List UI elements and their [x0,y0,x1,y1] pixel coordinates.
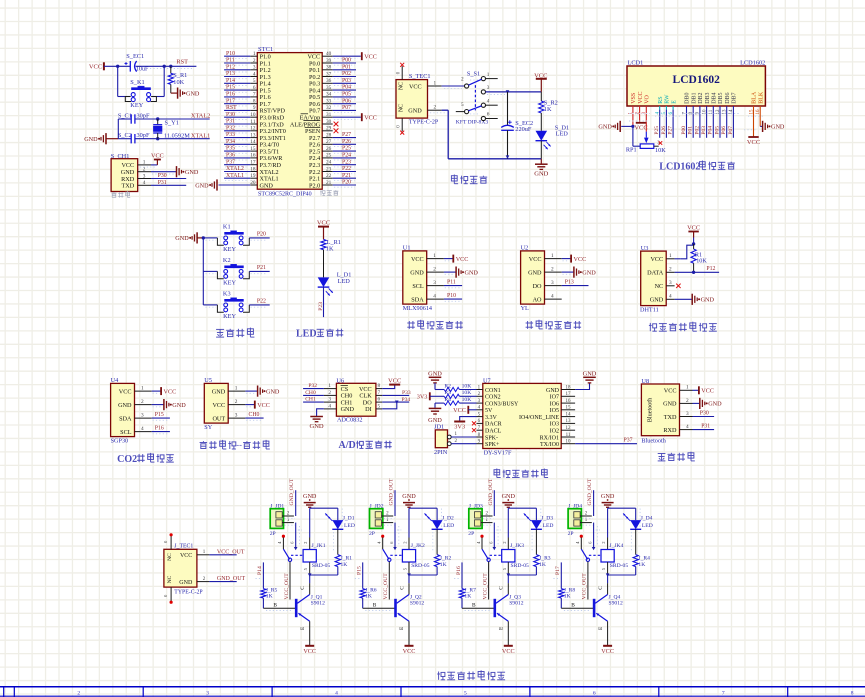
svg-text:10: 10 [566,440,572,445]
transistor J_Q3 S9012 [462,607,494,609]
svg-text:DB6: DB6 [725,92,731,103]
svg-text:5: 5 [253,78,256,84]
svg-text:S9012: S9012 [609,601,624,607]
svg-text:VCC: VCC [119,388,132,395]
svg-text:VCC_OUT: VCC_OUT [482,573,488,600]
resistor R4 10K [435,402,444,404]
no-connect at MCU pin 30 [334,122,339,127]
svg-text:P32: P32 [308,383,317,389]
svg-text:P36: P36 [226,153,235,159]
MCU pin 33 P0.6 [322,103,333,105]
svg-text:KEY: KEY [223,246,236,253]
svg-text:CON3/BUSY: CON3/BUSY [485,401,519,407]
LCD pin2 VCC port [639,106,641,123]
svg-text:STC89C52RC_DIP40: STC89C52RC_DIP40 [258,191,312,197]
svg-text:22: 22 [326,173,332,179]
svg-text:3V3: 3V3 [417,394,428,401]
svg-text:SDA: SDA [119,415,132,422]
MCU pin 23 P2.2 [322,171,333,173]
svg-text:VCC: VCC [664,388,677,395]
svg-text:1: 1 [433,253,436,259]
svg-text:P11: P11 [447,280,456,286]
svg-text:KEY: KEY [130,102,143,109]
svg-text:GND: GND [650,297,664,304]
LCD pin16 BLK to ground [759,106,761,126]
svg-text:5: 5 [461,102,464,108]
svg-text:10K: 10K [462,390,472,396]
svg-text:IO2: IO2 [550,429,559,435]
svg-text:S_K1: S_K1 [130,79,144,86]
svg-text:5V: 5V [485,408,493,414]
svg-text:15: 15 [566,406,572,411]
svg-text:DHT11: DHT11 [640,307,659,314]
VCC port cell 4 [603,645,612,647]
MCU pin 28 P2.7 [322,137,333,139]
svg-text:4: 4 [551,294,554,300]
svg-text:3: 3 [143,173,146,179]
svg-text:P15: P15 [226,85,235,91]
svg-text:VCC: VCC [403,648,416,655]
svg-text:VCC: VCC [388,378,401,385]
svg-text:VCC: VCC [747,139,760,146]
svg-text:VCC: VCC [638,91,644,103]
svg-text:KEY: KEY [223,280,236,287]
svg-text:P05: P05 [342,92,351,98]
svg-text:RW: RW [665,94,671,104]
svg-text:P07: P07 [728,126,734,135]
svg-text:12: 12 [250,126,256,132]
net P23 wire [323,287,325,317]
svg-text:J_D1: J_D1 [343,516,355,522]
MCU pin 18 XTAL2 [250,171,257,173]
MCU pin 1 P1.0 [250,55,257,57]
svg-text:GND: GND [546,388,560,394]
svg-text:VCC_OUT: VCC_OUT [582,573,588,600]
switch arms [468,79,481,85]
svg-text:3: 3 [669,280,672,286]
wire switch pin3 to rail [486,91,542,93]
svg-text:BLK: BLK [758,91,764,104]
svg-text:35: 35 [326,85,332,91]
svg-text:VCC: VCC [502,648,515,655]
net P34 wire [382,401,409,403]
svg-text:4: 4 [335,691,338,697]
svg-text:VCC: VCC [303,648,316,655]
resistor S_R1 10K [169,65,172,68]
VCC at MCU pin 40 [361,52,363,60]
svg-text:33: 33 [326,99,332,105]
svg-text:10uF: 10uF [136,67,149,73]
S_TEC1 pin2 wire [428,109,442,111]
net P32 wire [303,388,324,390]
svg-text:E: E [671,100,677,104]
svg-text:P21: P21 [257,265,266,271]
VCC port cell 2 [405,645,414,647]
svg-text:B: B [273,603,277,609]
svg-text:DACL: DACL [485,429,502,435]
svg-text:3: 3 [433,280,436,286]
svg-text:VCC: VCC [601,648,614,655]
svg-text:VCC: VCC [456,256,469,263]
svg-text:LED: LED [296,329,317,340]
svg-text:15: 15 [250,146,256,152]
svg-text:SPK+: SPK+ [485,442,500,448]
svg-text:3: 3 [686,411,689,417]
svg-text:DATA: DATA [647,270,664,277]
svg-text:TYPE-C-2P: TYPE-C-2P [174,590,202,596]
svg-text:14: 14 [566,412,572,417]
MCU pin 39 P0.0 [322,62,333,64]
MCU pin 29 PSEN [322,130,333,132]
resistor S_R2 1K [540,92,542,101]
svg-text:12: 12 [566,426,572,431]
svg-text:K3: K3 [223,291,231,298]
svg-text:NC: NC [167,575,173,583]
svg-text:DB1: DB1 [691,92,697,103]
svg-text:IO7: IO7 [550,395,559,401]
MCU pin 5 P1.4 [250,82,257,84]
net P33 wire [382,394,409,396]
svg-text:J_R7: J_R7 [464,588,476,594]
svg-text:P32: P32 [226,125,235,131]
svg-text:1K: 1K [544,106,552,113]
svg-text:GND: GND [172,402,186,409]
DI tied to DO [382,402,397,409]
dot texture LCD [629,113,650,115]
svg-text:LCD1602: LCD1602 [659,162,700,173]
net VCC_OUT wire cell 4 [587,562,589,600]
relay J_JK2 SRD-05 coil [408,538,410,550]
svg-text:SCL: SCL [412,283,424,290]
net VCC_OUT wire cell 1 [289,562,291,600]
MCU pin 38 P0.1 [322,69,333,71]
svg-text:1: 1 [235,386,238,392]
svg-text:R4: R4 [444,397,451,403]
svg-text:LCD1602: LCD1602 [673,74,721,86]
svg-text:VCC: VCC [701,388,714,395]
resistor J_R2 1K [436,529,438,554]
svg-text:LED: LED [338,278,351,285]
svg-text:C: C [499,586,505,590]
svg-text:CH0: CH0 [305,390,316,396]
MCU pin 2 P1.1 [250,62,257,64]
svg-text:J_Q3: J_Q3 [509,594,521,600]
svg-text:SDA: SDA [411,296,424,303]
svg-text:S9012: S9012 [509,601,524,607]
svg-text:P02: P02 [694,126,700,135]
relay contact cell 1 [282,535,285,538]
ground ADC [317,409,324,416]
svg-text:8: 8 [851,691,854,697]
dot texture cell 2 [384,518,395,520]
svg-text:OUT: OUT [212,415,225,422]
svg-text:GND: GND [583,370,597,377]
svg-text:2: 2 [253,58,256,64]
svg-text:P13: P13 [226,71,235,77]
svg-text:DO: DO [533,283,542,290]
svg-text:1K: 1K [564,594,571,600]
svg-text:14: 14 [250,139,256,145]
svg-text:P13: P13 [565,280,574,286]
svg-text:RST: RST [176,58,188,65]
svg-text:IO4/ONE_LINE: IO4/ONE_LINE [519,415,559,421]
svg-text:GND: GND [598,124,612,131]
svg-text:VCC_OUT: VCC_OUT [284,573,290,600]
svg-text:SRD-05: SRD-05 [411,563,430,569]
svg-text:P31: P31 [701,424,710,430]
svg-text:5: 5 [464,691,467,697]
relay J_JK4 SRD-05 coil [607,538,609,550]
transistor J_Q2 S9012 [363,607,395,609]
svg-text:P23: P23 [342,159,351,165]
push button K1 KEY [203,237,217,239]
MCU pin 27 P2.6 [322,143,333,145]
svg-text:P21: P21 [342,173,351,179]
MCU pin 12 P3.2/INT0 [250,130,257,132]
svg-text:S_R1: S_R1 [173,72,187,79]
svg-text:3: 3 [206,691,209,697]
svg-text:LED: LED [443,523,454,529]
net VCC_OUT wire cell 3 [488,562,490,600]
MCU pin 24 P2.3 [322,164,333,166]
svg-text:P33: P33 [226,132,235,138]
svg-text:DI: DI [365,406,372,413]
wire VCC to cap [104,65,130,67]
svg-text:10K: 10K [173,79,184,86]
svg-text:8: 8 [253,99,256,105]
svg-text:GND: GND [303,493,317,500]
svg-text:7: 7 [253,92,256,98]
svg-text:VO: VO [645,94,651,103]
resistor J_R3 1K [535,529,537,554]
no connect DACR DACL [472,421,476,425]
push button K3 KEY [203,304,217,306]
svg-text:GND: GND [185,169,199,176]
svg-text:J_D3: J_D3 [541,516,553,522]
svg-text:J_JK4: J_JK4 [609,543,623,549]
svg-text:Bluetooth: Bluetooth [647,397,654,422]
net P31 at S_CH1 pin4 [151,184,186,186]
MCU pin 7 P1.6 [250,96,257,98]
svg-text:P03: P03 [342,78,351,84]
dot texture power [444,88,462,90]
svg-text:LED: LED [556,130,569,137]
MCU pin 31 EA/Vpp [322,116,333,118]
svg-text:IO3: IO3 [550,422,559,428]
svg-text:10: 10 [250,112,256,118]
svg-text:3: 3 [253,65,256,71]
svg-text:DB3: DB3 [705,92,711,103]
svg-text:3V3: 3V3 [454,423,465,430]
svg-text:1K: 1K [638,562,645,568]
svg-text:P00: P00 [342,58,351,64]
junction [116,65,119,68]
svg-text:KEY: KEY [223,313,236,320]
svg-text:LED: LED [344,523,355,529]
svg-text:10K: 10K [655,147,666,154]
svg-text:1K: 1K [539,562,546,568]
svg-text:J_D2: J_D2 [442,516,454,522]
svg-text:RST: RST [226,105,237,111]
stub bottom J_TEC1 [170,587,172,601]
svg-text:TXD: TXD [121,183,134,190]
MCU pin 37 P0.2 [322,76,333,78]
svg-text:VCC: VCC [687,225,700,232]
svg-text:GND_OUT: GND_OUT [587,478,593,505]
svg-text:DACR: DACR [485,422,502,428]
svg-text:DB0: DB0 [685,92,691,103]
svg-text:GND: GND [601,493,615,500]
svg-text:P02: P02 [342,71,351,77]
S_TEC1 pin1 wire [428,85,442,87]
svg-text:2P: 2P [270,531,276,537]
svg-text:VCC: VCC [574,256,587,263]
svg-text:38: 38 [326,65,332,71]
LCD pin3 VO to pot wiper [645,106,647,132]
svg-text:GND: GND [582,269,596,276]
relay J_JK1 SRD-05 coil [309,538,311,550]
svg-text:R3: R3 [444,390,451,396]
svg-text:P35: P35 [226,146,235,152]
svg-text:P37: P37 [226,159,235,165]
svg-text:37: 37 [326,71,332,77]
svg-text:TYPE-C-2P: TYPE-C-2P [409,120,439,126]
svg-text:2: 2 [433,267,436,273]
svg-text:10K: 10K [462,383,472,389]
svg-text:25: 25 [326,153,332,159]
svg-text:3.3V: 3.3V [485,415,498,421]
svg-text:6: 6 [487,112,490,118]
net CH1 wire [303,401,324,403]
svg-text:XTAL1: XTAL1 [191,133,210,140]
MCU pin 10 P3.0/RxD [250,116,257,118]
MCU pin 17 P3.7/RD [250,164,257,166]
svg-text:P16: P16 [155,426,164,432]
3V3 music 3.3V [460,417,477,422]
svg-text:VCC: VCC [364,54,377,61]
svg-text:P37: P37 [624,438,633,444]
svg-text:GND: GND [465,269,479,276]
svg-text:GND: GND [701,297,715,304]
ground at S_CH1 pin2 [151,171,177,173]
svg-text:DB7: DB7 [732,92,738,103]
svg-text:39: 39 [326,58,332,64]
svg-text:7: 7 [722,691,725,697]
svg-text:1: 1 [686,385,689,391]
svg-text:P27: P27 [668,126,674,135]
svg-text:S_C2: S_C2 [118,132,132,139]
relay J_JK3 SRD-05 coil [507,538,509,550]
resistor J_R4 1K [635,529,637,554]
ground keys [196,232,198,243]
svg-text:4: 4 [433,294,436,300]
svg-text:J_Q4: J_Q4 [609,594,621,600]
net P12 wire [675,271,720,273]
MCU pin 9 RST/VPD [250,109,257,111]
svg-text:VCC: VCC [411,256,424,263]
net VCC_OUT wire cell 2 [388,562,390,600]
MCU pin 16 P3.6/WR [250,157,257,159]
svg-text:VCC: VCC [529,256,542,263]
wire GND node cell 3 [507,508,509,537]
svg-text:RS: RS [658,96,664,103]
svg-text:GND: GND [186,90,200,97]
LCD pin15 BLA to VCC [753,106,755,137]
svg-text:J_Q1: J_Q1 [311,594,323,600]
svg-text:GND: GND [195,182,209,189]
svg-text:GND_OUT: GND_OUT [488,478,494,505]
svg-text:P25: P25 [342,146,351,152]
svg-text:P26: P26 [661,126,667,135]
svg-text:P04: P04 [708,126,714,135]
svg-text:CH1: CH1 [305,397,316,403]
svg-text:6: 6 [593,691,596,697]
svg-text:P30: P30 [226,112,235,118]
svg-text:P24: P24 [342,153,351,159]
ground at MCU pin20 [216,179,218,190]
svg-text:NC: NC [167,553,173,561]
svg-text:S_TEC1: S_TEC1 [409,73,431,80]
svg-text:1: 1 [434,80,437,86]
svg-text:34: 34 [326,92,332,98]
svg-text:4: 4 [487,98,490,104]
svg-text:CON1: CON1 [485,388,501,394]
svg-text:S9012: S9012 [410,601,425,607]
resistor R2 10K [435,389,444,391]
svg-text:P17: P17 [555,566,561,575]
svg-text:GND: GND [310,423,324,430]
svg-text:ADC0832: ADC0832 [337,417,362,424]
svg-text:XTAL1: XTAL1 [226,173,244,179]
svg-text:P10: P10 [447,293,456,299]
net P21 [249,270,269,272]
svg-text:P30: P30 [700,410,709,416]
svg-text:P22: P22 [257,298,266,304]
net P31 bluetooth [693,429,715,431]
svg-text:9: 9 [253,105,256,111]
svg-text:P07: P07 [342,105,351,111]
net GND_OUT wire cell 4 [593,490,595,516]
svg-text:--: -- [236,440,242,450]
svg-text:VCC: VCC [212,402,225,409]
svg-text:6: 6 [378,397,381,403]
svg-text:C: C [598,586,604,590]
relay contact cell 3 [480,535,483,538]
svg-text:R2: R2 [444,383,451,389]
MCU pin 13 P3.3/INT1 [250,137,257,139]
svg-text:P34: P34 [226,139,235,145]
net P30 bluetooth [693,416,715,418]
ground bluetooth [693,402,700,404]
svg-text:CH0: CH0 [249,412,260,418]
resistor J_R7 1K [461,562,463,588]
svg-text:VCC_OUT: VCC_OUT [217,549,245,555]
svg-text:P20: P20 [342,180,351,186]
svg-text:28: 28 [326,132,332,138]
svg-text:J_Q2: J_Q2 [410,594,422,600]
svg-text:GND: GND [179,580,193,586]
net GND_OUT wire cell 3 [493,490,495,516]
VCC ADC pin8 [382,385,395,389]
LCD pin1 VSS wire to ground [632,106,634,126]
svg-text:GND: GND [175,235,189,242]
svg-text:P11: P11 [226,58,235,64]
svg-text:SRD-05: SRD-05 [312,563,331,569]
svg-text:J_R6: J_R6 [365,588,377,594]
svg-text:2P: 2P [369,531,375,537]
svg-text:P14: P14 [226,78,235,84]
svg-text:220uF: 220uF [515,126,532,133]
